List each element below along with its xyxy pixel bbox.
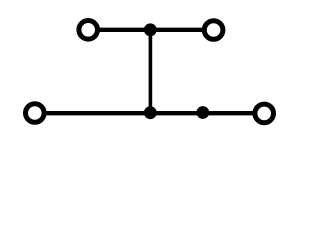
- junction dot top: [144, 23, 157, 36]
- wire vertical jumper: [149, 30, 153, 113]
- terminal circle top-left: [79, 21, 98, 40]
- terminal circle bottom-right: [255, 104, 274, 123]
- wire top horizontal: [98, 28, 203, 32]
- terminal circle top-right: [204, 21, 223, 40]
- terminal circle bottom-left: [26, 104, 45, 123]
- wire bottom horizontal: [45, 111, 254, 115]
- junction dot bottom-right: [196, 106, 209, 119]
- junction dot bottom-left: [144, 106, 157, 119]
